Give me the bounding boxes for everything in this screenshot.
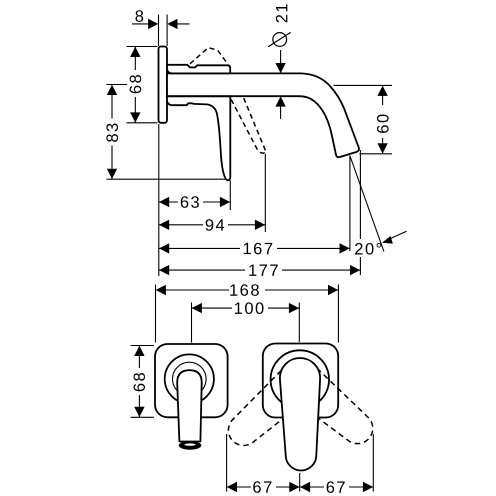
20deg leader tail [390, 231, 407, 239]
escutcheon thin ring left [173, 362, 207, 396]
handle lever front (solid) [280, 358, 320, 471]
100 left ext [191, 303, 193, 343]
dim-60 bottom extension line [360, 153, 393, 155]
diameter symbol [273, 33, 287, 47]
right escutcheon plate front [263, 344, 338, 418]
handle top strip (lever horizontal position) [167, 65, 230, 74]
dim 177 arrows [159, 265, 169, 275]
thin extension lines [107, 15, 393, 277]
dim 68 arrows [130, 47, 140, 57]
dim 94 [159, 224, 265, 226]
dia21 line [280, 50, 282, 73]
svg-text:60: 60 [374, 112, 392, 133]
dim-8 left extension line [158, 15, 160, 47]
dim 63 [159, 201, 231, 203]
svg-text:67: 67 [252, 479, 273, 496]
168 right ext [337, 285, 339, 343]
dim-60 top extension line [334, 84, 393, 86]
svg-text:68: 68 [127, 73, 145, 94]
67 right ext [372, 434, 374, 492]
dim 83 arrows [107, 85, 117, 95]
svg-text:63: 63 [180, 194, 201, 212]
svg-text:177: 177 [248, 262, 280, 280]
dim 168 [156, 289, 339, 291]
68 front bottom ext [131, 416, 154, 418]
100 right ext [298, 303, 300, 343]
dim-68 top extension line [127, 46, 158, 48]
dim 67 center arrows [289, 482, 299, 492]
spout tube front (capsule) [177, 370, 202, 441]
spout outlet extension (167) [349, 156, 351, 252]
dashed raised lever (top) [190, 48, 228, 65]
dim 83 line [111, 85, 113, 180]
lower mount block + handle blade side view [167, 96, 230, 180]
blade tip extension (63) [229, 181, 231, 211]
svg-text:168: 168 [229, 282, 261, 300]
dia 21 arrows [275, 63, 285, 73]
dim 94 arrows [159, 220, 169, 230]
dim-83 top extension line [107, 84, 134, 86]
67 center ext [299, 473, 301, 492]
svg-text:100: 100 [234, 300, 266, 318]
text halos [104, 70, 381, 495]
svg-text:167: 167 [242, 240, 274, 258]
68 front text halo [131, 368, 147, 395]
dashed swung handle right [285, 363, 381, 454]
67 left ext [226, 434, 228, 492]
68 front arrows [134, 346, 144, 417]
dashed swung handle left [218, 364, 314, 455]
68 front dim line [138, 346, 140, 418]
arrows [107, 19, 388, 493]
escutcheon outer circle left [165, 354, 214, 403]
dim 167 arrows [159, 243, 169, 253]
left escutcheon plate front [155, 344, 228, 417]
spout tip extension (177) [359, 150, 361, 275]
dim 8 arrows [148, 19, 158, 29]
svg-text:67: 67 [326, 479, 347, 496]
wall plate side view [159, 47, 168, 123]
dim 100 [192, 307, 300, 309]
dim 60 line [382, 85, 384, 105]
svg-text:8: 8 [135, 8, 146, 26]
svg-text:68: 68 [131, 371, 149, 392]
dim 168 arrows [156, 285, 166, 295]
dim-8 right extension line [166, 15, 168, 47]
dim-68 bottom extension line [127, 122, 158, 124]
svg-text:83: 83 [104, 121, 122, 142]
dim 8 line [132, 23, 157, 25]
dim-83 bottom extension line [107, 178, 227, 180]
dim 167 [159, 247, 350, 249]
handle base circle [271, 350, 329, 408]
svg-text:21: 21 [273, 2, 291, 23]
dim 67 right arrow [363, 482, 373, 492]
dim 68 line [134, 47, 136, 123]
20deg arrow [382, 236, 393, 244]
dashed raised blade (side) [231, 98, 266, 153]
spout tube side view [167, 73, 359, 157]
dim 177 [159, 269, 361, 271]
svg-text:20°: 20° [354, 241, 383, 259]
dashed-tip extension (94) [264, 154, 266, 232]
dim 67 67 [227, 486, 374, 488]
68 front top ext [131, 345, 154, 347]
dim 60 arrows [377, 86, 387, 96]
dim 63 arrows [159, 197, 169, 207]
dim 67 left arrow [227, 482, 237, 492]
dim 100 arrows [192, 303, 202, 313]
168 left ext [155, 285, 157, 343]
wall face extension line down [158, 124, 160, 276]
dimension texts [104, 2, 393, 496]
front view thin extension lines [131, 285, 374, 492]
20deg stream line (over halo) [350, 156, 384, 252]
spout outlet ellipse [179, 441, 202, 450]
svg-text:94: 94 [205, 217, 226, 235]
